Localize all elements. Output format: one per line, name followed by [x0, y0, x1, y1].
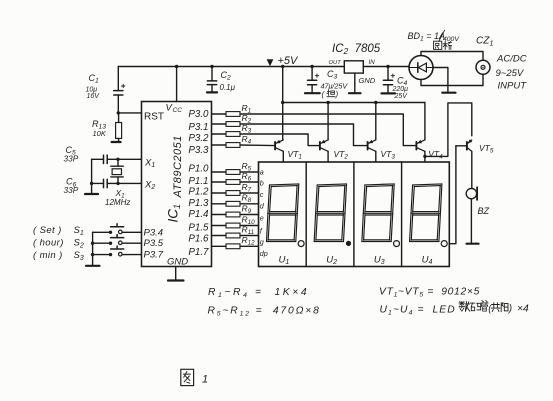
transistor VT4 — [416, 140, 425, 151]
wire +5V rail — [118, 66, 409, 68]
wire VT3 collector — [375, 151, 377, 162]
labels port pins right — [188, 109, 209, 258]
wire VT1 collector — [282, 151, 284, 162]
wire bridge minus to ground — [433, 68, 448, 93]
svg-text:47μ/25V: 47μ/25V — [321, 82, 349, 91]
wire bridge AC top — [421, 52, 483, 61]
note VT1-VT5 — [379, 287, 480, 299]
svg-text:): ) — [335, 90, 339, 99]
wire crystal left bus — [90, 159, 93, 194]
wire R3 to VT2 base — [240, 134, 319, 146]
label VT4 — [428, 149, 443, 161]
svg-text:RST: RST — [144, 112, 164, 123]
svg-text:P1.6: P1.6 — [188, 233, 209, 244]
wire IC GND — [175, 267, 177, 281]
label VT2 — [334, 149, 349, 161]
wire RST — [118, 112, 141, 114]
label AC/DC — [496, 54, 527, 65]
label GND 7805 — [359, 76, 376, 85]
label U3 — [374, 255, 385, 267]
svg-text:P3.4: P3.4 — [144, 227, 164, 238]
wire VT5 collector to buzzer — [471, 151, 473, 188]
svg-text:P1.4: P1.4 — [188, 209, 209, 220]
note R1-R4 — [208, 287, 309, 299]
svg-text:a: a — [260, 168, 264, 177]
svg-text:( hour): ( hour) — [33, 238, 64, 249]
display U3 digit — [362, 184, 394, 242]
wire R1 to VT4 base — [240, 114, 416, 146]
ground IC — [168, 279, 184, 281]
label U4 — [422, 255, 433, 267]
caption figure 1 — [181, 369, 208, 385]
capacitor C5 — [92, 155, 118, 163]
svg-text:P3.7: P3.7 — [144, 249, 164, 260]
svg-text:P1.3: P1.3 — [188, 198, 209, 209]
ground below C2 — [207, 91, 217, 93]
wire 7805 GND — [354, 73, 356, 93]
IC U1 AT89C2051 box — [142, 102, 212, 267]
bridge BD1 diode — [410, 63, 433, 72]
label tantalum chinese — [322, 90, 339, 99]
crystal X1 — [111, 159, 123, 183]
wire VT4 collector to VT5 emitter — [425, 103, 472, 156]
svg-text:g: g — [260, 237, 264, 246]
svg-text:GND: GND — [359, 76, 376, 85]
svg-text:10K: 10K — [93, 129, 107, 138]
ground crystal — [85, 193, 98, 195]
capacitor C3 — [308, 67, 319, 94]
label OUT — [329, 60, 342, 66]
wire Vcc — [176, 67, 178, 102]
note U1-U4 LED — [380, 305, 456, 317]
ground below C3 — [305, 92, 320, 94]
label X1 pin — [144, 158, 155, 170]
svg-text:c: c — [260, 190, 264, 199]
svg-text:25V: 25V — [394, 93, 409, 100]
label S1 — [33, 225, 84, 237]
switch S2 — [93, 235, 142, 245]
labels segment letters — [260, 168, 268, 259]
bridge BD1 circle — [409, 56, 433, 80]
display U1 digit — [267, 184, 299, 242]
capacitor C4 — [383, 67, 394, 94]
svg-text:e: e — [260, 214, 264, 223]
ground buttons — [86, 265, 100, 267]
transistor VT2 — [320, 140, 328, 152]
label X1 value — [105, 188, 130, 207]
wire +5V drop and driver rail — [281, 67, 425, 140]
label S2 — [33, 238, 84, 250]
label Vcc — [166, 103, 183, 115]
resistors R5-R12 — [212, 161, 259, 249]
label C5 — [64, 145, 79, 163]
svg-text:AC/DC: AC/DC — [496, 54, 527, 65]
resistor R13 — [116, 113, 122, 142]
note R5-R12 — [208, 306, 321, 318]
label C2 — [220, 70, 236, 92]
ground below C4 — [382, 92, 396, 94]
display U1 dp — [298, 241, 304, 247]
buzzer BZ — [466, 187, 477, 200]
svg-text:P3.5: P3.5 — [144, 238, 164, 249]
label S3 — [33, 250, 84, 262]
svg-text:P3.2: P3.2 — [188, 133, 209, 144]
label BD1 — [408, 30, 461, 43]
wire VT5 base down — [450, 146, 467, 244]
svg-text:0.1μ: 0.1μ — [220, 83, 236, 92]
capacitor C1 — [114, 67, 125, 113]
svg-text:P1.7: P1.7 — [188, 247, 209, 258]
label AT89C2051 rotated — [172, 135, 184, 198]
node C3 junction — [310, 65, 313, 68]
svg-text:16V: 16V — [87, 93, 101, 100]
switch S3 — [93, 246, 142, 256]
label VT5 — [479, 143, 494, 155]
label 9-25V — [496, 68, 525, 79]
svg-text:P3.3: P3.3 — [188, 145, 209, 156]
svg-text:P1.1: P1.1 — [188, 176, 208, 187]
wire VT2 emitter — [327, 103, 329, 140]
svg-text:): ) — [508, 304, 512, 315]
svg-text:b: b — [260, 179, 264, 188]
wire VT2 collector — [327, 151, 329, 162]
svg-text:AT89C2051: AT89C2051 — [172, 135, 184, 198]
ground bridge — [442, 92, 455, 94]
wire X2 row — [116, 182, 141, 185]
svg-text:33P: 33P — [64, 185, 79, 195]
label X2 pin — [144, 180, 155, 192]
ground below 7805 — [349, 92, 361, 94]
svg-text:P1.0: P1.0 — [188, 163, 209, 174]
svg-text:+5V: +5V — [278, 55, 300, 67]
capacitor C6 — [92, 179, 118, 187]
wire R2 to VT3 base — [240, 124, 367, 146]
display U4 dp — [441, 241, 447, 247]
svg-text:IN: IN — [369, 59, 376, 66]
svg-text:IC2 7805: IC2 7805 — [332, 43, 381, 56]
svg-text:9~25V: 9~25V — [496, 68, 525, 79]
svg-text:R5~R12 = 470Ω×8: R5~R12 = 470Ω×8 — [208, 306, 321, 318]
wire bridge AC bottom — [421, 74, 483, 85]
note chinese LED digit tube — [459, 301, 529, 315]
wire button bus — [91, 232, 94, 265]
svg-text:×4: ×4 — [517, 304, 529, 315]
wire VT3 emitter — [375, 103, 377, 140]
regulator U2 7805 box — [344, 61, 363, 73]
switch S1 — [93, 224, 142, 234]
display U3 dp — [394, 241, 400, 247]
svg-text:BZ: BZ — [478, 206, 490, 216]
label C4 — [392, 76, 409, 101]
label BZ — [478, 206, 490, 216]
svg-text:P3.1: P3.1 — [188, 122, 208, 133]
svg-text:1: 1 — [202, 374, 208, 386]
wire R4 to VT1 base — [240, 144, 275, 147]
svg-text:220μ: 220μ — [392, 86, 409, 93]
display U2 digit — [314, 184, 346, 242]
label GND pin — [167, 257, 188, 268]
connector CZ1 — [476, 60, 490, 74]
label U2 — [326, 255, 337, 267]
transistor VT5 — [467, 139, 472, 151]
label RST — [144, 112, 164, 123]
wire X1 row — [116, 158, 141, 161]
svg-text:OUT: OUT — [329, 60, 342, 66]
svg-text:33P: 33P — [64, 153, 79, 163]
label IC2 7805 — [332, 43, 381, 56]
svg-text:dp: dp — [260, 249, 268, 258]
ground buzzer — [467, 243, 479, 245]
transistor VT1 — [275, 140, 283, 152]
label C6 — [64, 177, 79, 195]
label C3 — [321, 69, 349, 91]
label IN — [369, 59, 376, 66]
transistor VT3 — [368, 140, 376, 152]
display U4 digit — [410, 184, 442, 242]
label C1 — [86, 73, 101, 100]
wire VT4 collector — [423, 151, 426, 162]
node Vcc junction — [175, 65, 178, 68]
label INPUT — [498, 81, 528, 92]
svg-text:P3.0: P3.0 — [188, 109, 209, 120]
svg-text:GND: GND — [167, 257, 188, 268]
svg-text:P1.2: P1.2 — [188, 187, 209, 198]
wire buzzer to ground — [470, 199, 472, 244]
label VT3 — [381, 149, 396, 161]
labels port pins left — [144, 227, 164, 260]
node rail drop junction — [281, 65, 284, 68]
svg-text:P1.5: P1.5 — [188, 223, 209, 234]
+5V marker — [267, 55, 299, 67]
label R13 — [92, 119, 107, 138]
display U2 dp — [346, 241, 351, 246]
label CZ1 — [476, 36, 493, 48]
label round-bridge chinese — [434, 41, 452, 49]
label IC1 rotated — [166, 204, 182, 223]
svg-text:12MHz: 12MHz — [105, 198, 130, 207]
label VT1 — [288, 149, 302, 161]
svg-text:( Set ): ( Set ) — [33, 225, 62, 236]
display dividers — [306, 162, 401, 267]
node C4 junction — [386, 65, 389, 68]
node C2 junction — [210, 65, 213, 68]
svg-text:CC: CC — [173, 107, 183, 114]
node RST junction — [117, 111, 120, 114]
label U1 — [279, 255, 290, 267]
ground below R13 — [112, 141, 121, 143]
display assembly box — [259, 162, 450, 267]
wire VT4 emitter — [424, 103, 426, 140]
resistors R1-R4 — [212, 103, 252, 148]
svg-text:( min ): ( min ) — [33, 250, 63, 261]
svg-text:INPUT: INPUT — [498, 81, 528, 92]
capacitor C2 — [207, 67, 216, 93]
